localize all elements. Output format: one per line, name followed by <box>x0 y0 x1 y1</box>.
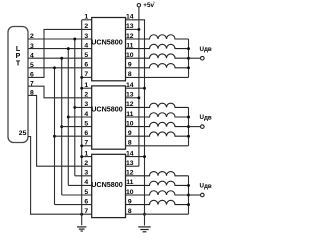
wire to Udv terminal <box>189 126 201 128</box>
wire IC2 pin8 to winding common <box>126 145 189 147</box>
wire to Udv terminal <box>189 194 201 196</box>
junction ground rail <box>80 144 83 147</box>
junction pin14 bus <box>143 87 146 90</box>
wire LPT3 to IC1 pin4 <box>28 48 92 50</box>
Udv motor supply terminal 1 <box>201 56 205 60</box>
svg-text:2: 2 <box>84 23 88 30</box>
motor winding L1 (IC1 pin 12) <box>126 35 189 39</box>
motor winding L6 (IC2 pin 11) <box>126 113 189 117</box>
svg-text:T: T <box>16 61 21 68</box>
junction winding common <box>187 47 190 50</box>
wire IC1 pin13 stub <box>126 28 139 30</box>
IC U1 UCN5800 body <box>92 18 126 81</box>
ground symbol left <box>77 226 86 228</box>
wire IC2 pin1 stub <box>82 87 92 89</box>
junction ground rail <box>80 155 83 158</box>
svg-text:5: 5 <box>84 52 88 59</box>
junction LPT25-ground rail <box>80 213 83 216</box>
wire IC3 pin8 to winding common <box>126 213 189 215</box>
motor winding L10 (IC3 pin 11) <box>126 181 189 185</box>
wire to IC2 pin4 <box>68 116 91 118</box>
wire LPT7 to IC2 pin2 strobe <box>28 86 92 98</box>
svg-text:4: 4 <box>84 111 88 118</box>
svg-text:2: 2 <box>84 160 88 167</box>
junction on IC1 row <box>73 38 76 41</box>
junction on IC2 row <box>60 125 63 128</box>
svg-text:UCN5800: UCN5800 <box>91 105 123 114</box>
svg-text:+5v: +5v <box>143 2 154 9</box>
svg-text:Uдв: Uдв <box>200 114 212 121</box>
svg-text:6: 6 <box>84 62 88 69</box>
wire to Udv terminal <box>189 57 201 59</box>
motor winding L3 (IC1 pin 10) <box>126 54 189 58</box>
junction winding common <box>187 57 190 60</box>
junction pin14 bus <box>143 213 146 216</box>
wire to IC3 pin6 <box>55 204 92 206</box>
+5v stem vertical to pin13s <box>138 7 140 166</box>
svg-text:Uдв: Uдв <box>200 183 212 190</box>
svg-text:3: 3 <box>84 101 88 108</box>
junction ground rail <box>80 76 83 79</box>
svg-text:L: L <box>16 46 21 53</box>
LPT connector XP1 <box>8 27 28 143</box>
winding common vertical <box>188 107 190 145</box>
Udv motor supply terminal 2 <box>201 125 205 129</box>
svg-text:1: 1 <box>84 14 88 21</box>
wire to IC3 pin5 <box>62 194 92 196</box>
wire IC1 pin8 to winding common <box>126 76 189 78</box>
svg-text:3: 3 <box>84 33 88 40</box>
wire IC2 pin14 stub <box>126 87 145 89</box>
junction on IC1 row <box>60 57 63 60</box>
data bus vertical x=74.8 (LPT2 line) <box>74 39 76 176</box>
wire to IC2 pin6 <box>55 135 92 137</box>
junction winding common <box>187 203 190 206</box>
svg-text:7: 7 <box>84 208 88 215</box>
svg-text:UCN5800: UCN5800 <box>91 180 123 189</box>
junction on IC2 row <box>73 106 76 109</box>
svg-text:7: 7 <box>84 140 88 147</box>
wire LPT4 to IC1 pin5 <box>28 57 92 59</box>
svg-text:6: 6 <box>84 198 88 205</box>
junction pin14 bus <box>143 155 146 158</box>
junction winding common <box>187 66 190 69</box>
wire LPT5 to IC1 pin6 <box>28 67 92 69</box>
motor winding L5 (IC2 pin 12) <box>126 103 189 107</box>
wire to IC2 pin5 <box>62 126 92 128</box>
wire LPT25 ground to IC3 pin7 <box>28 137 92 215</box>
junction on IC2 row <box>53 135 56 138</box>
svg-text:Uдв: Uдв <box>200 46 212 53</box>
wire IC3 pin1 stub <box>82 156 92 158</box>
motor winding L4 (IC1 pin 9) <box>126 64 189 68</box>
motor winding L8 (IC2 pin 9) <box>126 132 189 136</box>
junction on IC2 row <box>67 116 70 119</box>
pin14 bus vertical <box>126 20 145 214</box>
wire LPT8 to IC3 pin2 strobe <box>28 95 92 166</box>
svg-text:7: 7 <box>84 71 88 78</box>
junction winding common <box>187 125 190 128</box>
data bus vertical x=54.5 (LPT5 line) <box>54 68 56 205</box>
data bus vertical x=68.3 (LPT3 line) <box>67 49 69 186</box>
svg-text:6: 6 <box>84 130 88 137</box>
junction pin13 +5v <box>137 28 140 31</box>
motor winding L7 (IC2 pin 10) <box>126 122 189 126</box>
svg-text:5: 5 <box>84 189 88 196</box>
data bus vertical x=61.7 (LPT4 line) <box>61 58 63 195</box>
winding common vertical <box>188 176 190 214</box>
junction winding common <box>187 116 190 119</box>
wire IC1 pin7 stub <box>82 76 92 78</box>
wire IC2 pin7 stub <box>82 145 92 147</box>
tick mark <box>153 1 156 3</box>
wire LPT2 to IC1 pin3 <box>28 38 92 40</box>
motor winding L2 (IC1 pin 11) <box>126 44 189 48</box>
junction winding common <box>187 135 190 138</box>
IC U2 UCN5800 body <box>92 86 126 149</box>
+5v terminal <box>137 3 140 6</box>
junction winding common <box>187 194 190 197</box>
wire to IC2 pin3 <box>75 106 92 108</box>
svg-text:UCN5800: UCN5800 <box>91 38 123 47</box>
svg-text:P: P <box>16 53 21 60</box>
wire IC2 pin13 stub <box>126 97 139 99</box>
svg-text:1: 1 <box>84 82 88 89</box>
wire to IC3 pin3 <box>75 175 92 177</box>
svg-text:1: 1 <box>84 150 88 157</box>
motor winding L11 (IC3 pin 10) <box>126 191 189 195</box>
wire IC3 pin14 stub <box>126 156 145 158</box>
motor winding L12 (IC3 pin 9) <box>126 200 189 204</box>
junction on IC1 row <box>67 47 70 50</box>
ground symbol right <box>138 226 150 228</box>
svg-text:2: 2 <box>84 92 88 99</box>
junction winding common <box>187 184 190 187</box>
IC U3 UCN5800 body <box>92 154 126 217</box>
svg-text:4: 4 <box>84 42 88 49</box>
wire IC1 pin1 stub <box>82 19 92 21</box>
wire to IC3 pin4 <box>68 184 91 186</box>
svg-text:25: 25 <box>19 130 27 137</box>
svg-text:4: 4 <box>84 179 88 186</box>
junction pin13 +5v <box>137 96 140 99</box>
winding common vertical <box>188 39 190 77</box>
junction ground rail <box>80 87 83 90</box>
svg-text:5: 5 <box>84 120 88 127</box>
svg-text:3: 3 <box>84 170 88 177</box>
junction on IC1 row <box>53 66 56 69</box>
wire IC3 pin13 stub <box>126 165 139 167</box>
Udv motor supply terminal 3 <box>201 193 205 197</box>
motor winding L9 (IC3 pin 12) <box>126 172 189 176</box>
wire LPT6 to IC1 pin2 strobe <box>28 29 92 77</box>
ground rail vertical (pins 1 and 7) <box>81 20 83 226</box>
ground stem right <box>144 214 146 225</box>
